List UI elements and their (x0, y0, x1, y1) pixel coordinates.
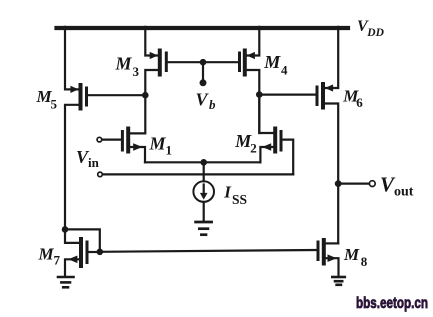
wire M2 drain up to node B (259, 95, 273, 133)
junction dot M7 drain node (62, 226, 69, 233)
ground ISS (196, 222, 212, 235)
svg-text:M: M (343, 245, 360, 264)
svg-text:M: M (263, 52, 281, 72)
label M7 (38, 244, 61, 267)
svg-text:4: 4 (281, 62, 288, 77)
wire M3 source to VDD rail (145, 27, 158, 56)
transistor M1 (NMOS) (122, 129, 142, 152)
svg-text:SS: SS (232, 192, 247, 207)
junction dot node B (256, 91, 263, 98)
wire Vin+ to M1 gate (103, 139, 121, 141)
wire tail M1-M2 sources (145, 161, 260, 163)
svg-text:out: out (394, 184, 414, 199)
junction dot M7 gate node (97, 249, 104, 256)
wire M6 drain down to M8 drain (325, 104, 338, 244)
label M3 (115, 53, 140, 79)
terminal Vin+ circle (97, 137, 102, 142)
label Vin (76, 147, 100, 170)
wire Vout node to terminal (338, 183, 369, 185)
current source ISS (193, 181, 214, 202)
ground M8 (332, 277, 345, 285)
node Vb stub (202, 62, 204, 82)
junction dot node A (142, 92, 149, 99)
transistor M8 (NMOS) (318, 240, 337, 264)
svg-text:8: 8 (361, 254, 368, 269)
svg-text:DD: DD (366, 27, 384, 39)
wire tail to ISS (203, 162, 205, 181)
svg-text:M: M (115, 53, 133, 73)
wire M7 diode loop to gate node (65, 229, 100, 251)
label M5 (36, 87, 58, 111)
svg-text:I: I (223, 183, 232, 202)
label M1 (149, 133, 173, 157)
wire ISS to ground (203, 202, 205, 221)
wire M8 source to ground (326, 258, 339, 276)
label ISS (223, 183, 247, 207)
svg-text:7: 7 (54, 253, 61, 268)
ground M7 (58, 277, 74, 287)
label M4 (263, 52, 288, 78)
wire M8 drain hook (326, 242, 339, 244)
wire M3 drain down to node A (145, 70, 158, 95)
transistor M5 (PMOS) (70, 85, 86, 109)
wire M4 source to VDD rail (247, 27, 260, 56)
transistor M4 (PMOS) (240, 51, 255, 75)
wire M5 gate to node A (88, 94, 145, 96)
svg-text:V: V (196, 90, 210, 110)
label M2 (234, 131, 257, 156)
transistor M3 (PMOS) (150, 51, 167, 75)
node Vb terminal dot (200, 79, 207, 86)
wire M2 gate to Vin- line (283, 140, 294, 175)
wire M1 source down to tail (130, 147, 145, 162)
svg-text:1: 1 (166, 143, 173, 158)
label Vout (380, 172, 414, 199)
wire M1 drain up to node A (130, 95, 145, 133)
junction dot Vout node (335, 180, 342, 187)
svg-text:bbs.eetop.cn: bbs.eetop.cn (356, 295, 428, 312)
wire gate bus M3-M4 (168, 61, 238, 63)
wire M5 source to VDD rail (65, 27, 79, 90)
svg-text:6: 6 (356, 95, 363, 110)
transistor M6 (PMOS) (317, 84, 333, 108)
transistor M2 (NMOS) (262, 129, 281, 152)
wire M7 drain hook (65, 229, 79, 243)
wire M2 source down to tail (260, 147, 273, 162)
svg-text:M: M (149, 133, 167, 153)
label M6 (342, 87, 363, 111)
transistor M7 (NMOS diode-connected) (68, 239, 87, 266)
svg-text:b: b (209, 97, 216, 112)
svg-text:2: 2 (250, 141, 256, 156)
wire VDD power rail (57, 26, 349, 30)
junction dot gate bus (200, 59, 207, 66)
wire M5 drain down to M7 drain node (65, 105, 79, 230)
label M8 (343, 245, 368, 269)
wire M6 source to VDD rail (325, 27, 338, 88)
terminal Vout circle (369, 181, 375, 187)
terminal Vin- circle (98, 172, 103, 177)
label VDD (357, 18, 385, 39)
svg-text:5: 5 (51, 96, 58, 111)
svg-text:M: M (38, 244, 55, 263)
wire M4 drain down to node B (247, 70, 260, 133)
svg-text:in: in (88, 155, 100, 170)
label Vb (196, 90, 217, 113)
junction dot tail node (200, 159, 207, 166)
watermark bbs.eetop.cn (356, 295, 428, 312)
svg-text:3: 3 (133, 64, 140, 79)
wire M7 source to ground (65, 259, 79, 276)
wire bias M7 gate to M8 gate (100, 250, 317, 252)
wire Vin- to M2 gate drop (103, 173, 293, 175)
wire M7 gate lead (89, 251, 100, 253)
wire M6 gate to node B (259, 93, 315, 95)
